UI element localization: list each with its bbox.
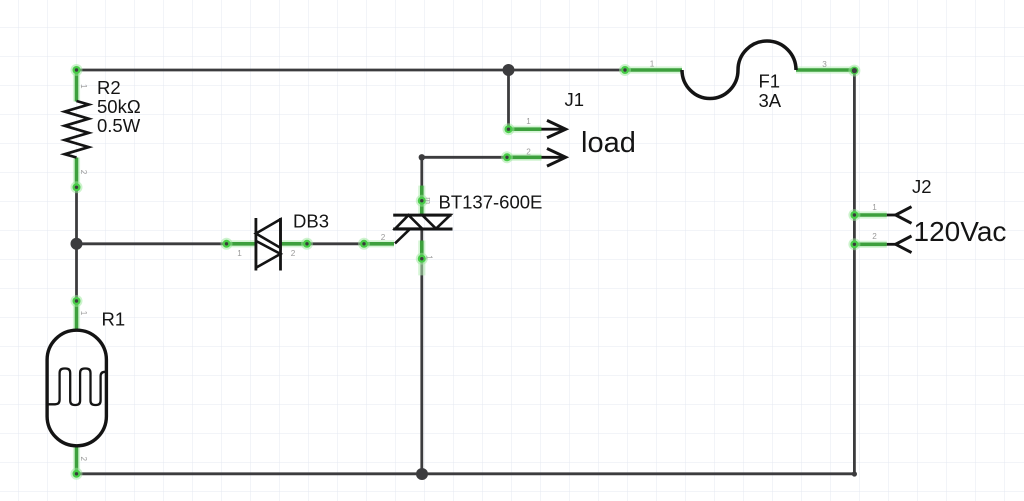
diac DB3 pin 2 number	[291, 249, 296, 258]
svg-text:BT137-600E: BT137-600E	[439, 192, 543, 213]
connector J1 pin 1 number	[526, 117, 531, 126]
green endpoint dot F1 pin1	[619, 64, 631, 76]
svg-text:3A: 3A	[759, 90, 782, 111]
connector J2 value label 120Vac	[914, 216, 1007, 247]
svg-text:1: 1	[872, 203, 877, 212]
wire J1 pin2 run	[422, 157, 542, 215]
resistor R2 power label 0.5W	[97, 115, 141, 136]
junction dot at R2/DB3/R1 node	[71, 238, 83, 250]
svg-text:1: 1	[237, 249, 242, 258]
resistor R2 name label	[97, 77, 121, 98]
lamp R1 body (stadium outline)	[47, 330, 106, 446]
green endpoint dot J2 pin2	[848, 238, 860, 250]
wire triac MT1 to bottom net	[420, 229, 423, 474]
svg-text:2: 2	[291, 249, 296, 258]
resistor R2 body (zigzag)	[65, 101, 89, 158]
connector J2 pin1 lead	[887, 207, 912, 224]
green endpoint dot R2 pin1 / top-left corner	[71, 64, 83, 76]
svg-text:120Vac: 120Vac	[914, 216, 1007, 247]
svg-text:R2: R2	[97, 77, 121, 98]
triac Q1 gate lead	[395, 229, 410, 243]
green net stub R2 pin2	[73, 158, 80, 188]
svg-text:J1: J1	[565, 89, 585, 110]
green net stub F1 pin1	[625, 66, 682, 73]
diac DB3 lower triangle	[256, 241, 281, 268]
green net stub triac gate	[364, 240, 394, 247]
triac Q1 right triangle	[422, 215, 450, 229]
fuse F1 body (S-curve)	[682, 41, 796, 99]
wire J1 pin1 drop	[509, 70, 542, 129]
green net stub J1 pin1	[509, 126, 542, 133]
green net stub triac MT2	[418, 186, 425, 216]
svg-text:1: 1	[526, 117, 531, 126]
green net stub R1 pin1	[73, 301, 80, 330]
connector J2 pin 2 number	[872, 232, 877, 241]
green endpoint dot triac gate	[358, 238, 370, 250]
green endpoint dot R1 pin2 / bottom-left corner	[71, 468, 83, 480]
green net stub DB3 pin2	[281, 240, 308, 247]
green net stub DB3 pin1	[227, 240, 256, 247]
connector J1 pin1 arrowhead	[547, 120, 566, 137]
triac Q1 bottom bar	[393, 228, 452, 231]
green endpoint dot R2 pin2	[71, 181, 83, 193]
green net stub R2 pin1	[73, 70, 80, 102]
fuse F1 value label 3A	[759, 90, 782, 111]
lamp R1 name label	[102, 309, 126, 330]
svg-text:J2: J2	[912, 176, 932, 197]
green endpoint dot J2 pin1	[848, 209, 860, 221]
svg-text:0.5W: 0.5W	[97, 115, 141, 136]
fuse F1 pin 1 number	[650, 59, 655, 68]
triac Q1 MT2 pin label	[424, 197, 433, 204]
svg-text:2: 2	[79, 170, 88, 175]
green endpoint dot R1 pin1	[71, 295, 83, 307]
svg-text:DB3: DB3	[293, 210, 329, 231]
svg-text:1: 1	[79, 311, 88, 316]
connector J2 pin1 chevron	[896, 207, 912, 224]
green net stub J2 pin2	[854, 241, 886, 248]
connector J1 pin2 arrowhead	[547, 149, 566, 167]
junction dot at J1 pin1 / top net	[503, 64, 515, 76]
svg-text:1: 1	[79, 84, 88, 89]
triac Q1 name label BT137-600E	[439, 192, 543, 213]
svg-text:50kΩ: 50kΩ	[97, 96, 141, 117]
green net stub R1 pin2	[73, 446, 80, 474]
diac DB3 upper triangle	[256, 219, 281, 248]
svg-text:2: 2	[872, 232, 877, 241]
wire R2 bottom to mid junction	[75, 158, 78, 302]
connector J2 pin2 chevron	[896, 236, 912, 253]
svg-text:load: load	[581, 127, 636, 159]
corner dot J1 pin2 bend	[419, 154, 425, 160]
diac DB3 name label	[293, 210, 329, 231]
resistor R2 pin 2 number	[79, 170, 88, 175]
connector J2 pin 1 number	[872, 203, 877, 212]
triac Q1 BT137-600E top bar	[393, 214, 451, 217]
corner dot top-right	[852, 68, 857, 73]
triac Q1 MT1 pin label	[425, 255, 434, 260]
wire left vertical (top corner to R2)	[75, 70, 78, 102]
svg-text:R1: R1	[102, 309, 126, 330]
svg-text:F1: F1	[759, 71, 781, 92]
fuse F1 pin 3 number	[822, 60, 827, 69]
connector J1 name label	[565, 89, 585, 110]
green net stub F1 pin3	[796, 66, 854, 73]
wire mid horizontal (junction to DB3 and to triac gate)	[77, 242, 395, 245]
svg-text:2: 2	[381, 233, 386, 242]
corner dot bottom-right	[852, 471, 857, 476]
green net stub J1 pin2	[506, 154, 542, 161]
green endpoint dot J1 pin2	[501, 151, 513, 163]
fuse F1 name label	[759, 71, 781, 92]
connector J1 pin1 arrow shaft	[541, 120, 565, 137]
green net stub triac MT1	[418, 241, 425, 276]
green net stub J2 pin1	[854, 211, 886, 218]
resistor R2 pin 1 number	[79, 84, 88, 89]
svg-text:2: 2	[526, 147, 531, 156]
connector J2 name label	[912, 176, 932, 197]
connector J2 pin2 lead	[887, 236, 912, 253]
svg-text:1: 1	[425, 255, 434, 260]
lamp R1 pin 2 number	[79, 457, 88, 462]
svg-text:3: 3	[822, 60, 827, 69]
green endpoint dot DB3 pin1	[221, 238, 233, 250]
green endpoint dot triac MT1	[416, 253, 428, 265]
connector J1 value label load	[581, 127, 636, 159]
svg-text:2: 2	[79, 457, 88, 462]
triac Q1 gate pin number 2	[381, 233, 386, 242]
wire R1 bottom to bottom-left corner	[75, 446, 78, 474]
resistor R2 value label 50k	[97, 96, 141, 117]
lamp R1 pin 1 number	[79, 311, 88, 316]
lamp R1 filament meander	[47, 369, 106, 406]
green endpoint dot F1 pin3 / top-right corner	[848, 65, 860, 77]
wire bottom horizontal net	[77, 71, 855, 474]
connector J1 pin2 arrow shaft	[542, 149, 566, 167]
diac DB3 left bar	[254, 218, 257, 271]
wire top horizontal net	[77, 69, 626, 72]
connector J1 pin 2 number	[526, 147, 531, 156]
green endpoint dot J1 pin1	[503, 123, 515, 135]
triac Q1 left triangle	[395, 215, 422, 229]
diac DB3 right bar	[279, 218, 282, 271]
junction dot at triac MT1 / bottom net	[416, 468, 428, 480]
green endpoint dot DB3 pin2	[301, 238, 313, 250]
svg-text:m: m	[424, 197, 433, 204]
diac DB3 pin 1 number	[237, 249, 242, 258]
green endpoint dot triac MT2	[416, 195, 428, 207]
svg-text:1: 1	[650, 59, 655, 68]
